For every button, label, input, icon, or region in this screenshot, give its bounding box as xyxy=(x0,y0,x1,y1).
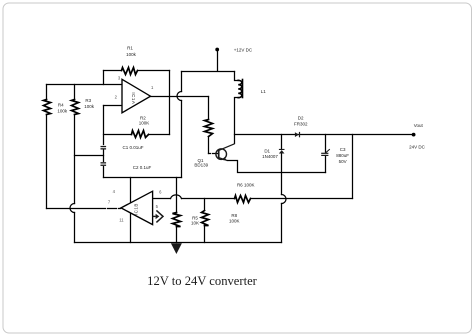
transistor Q1 xyxy=(216,144,235,161)
capacitor C1 xyxy=(101,146,107,150)
svg-text:100K: 100K xyxy=(139,120,150,125)
wire branch R3 to C1-C2 midpoint xyxy=(75,155,104,157)
svg-text:50V: 50V xyxy=(339,159,347,164)
wire Q1 emitter to ground rail xyxy=(228,161,326,173)
capacitor C3 (polarized) xyxy=(321,149,330,156)
resistor R6 xyxy=(235,196,251,203)
svg-text:IC1B: IC1B xyxy=(134,203,139,215)
wire IC1A output xyxy=(151,96,209,98)
resistor R1 xyxy=(104,70,170,72)
wire D1 branch xyxy=(281,135,283,243)
wire hop pin6 wire over R5 line xyxy=(171,195,182,199)
diode D2 xyxy=(295,132,300,137)
svg-text:10K: 10K xyxy=(191,221,199,226)
node Vout terminal dot xyxy=(412,133,416,137)
wire hop +12V line over IC1A output xyxy=(177,92,182,101)
svg-text:100k: 100k xyxy=(84,104,95,109)
svg-text:100k: 100k xyxy=(57,109,68,114)
wire pin2 input xyxy=(104,105,123,107)
capacitor C2 xyxy=(101,162,107,166)
svg-text:11: 11 xyxy=(119,218,124,223)
resistor R5 xyxy=(176,178,178,243)
svg-text:C2 0.1uF: C2 0.1uF xyxy=(133,165,152,170)
resistor R4 xyxy=(46,85,48,209)
wire Vout feedback drop xyxy=(352,135,354,199)
svg-text:C3: C3 xyxy=(340,147,346,152)
svg-text:Vout: Vout xyxy=(414,123,424,128)
svg-text:R3: R3 xyxy=(85,98,91,103)
svg-text:R1: R1 xyxy=(127,46,133,51)
svg-text:BD139: BD139 xyxy=(194,162,208,167)
inductor L1 core bar xyxy=(242,80,244,98)
wire V+ rail above IC1B xyxy=(104,177,182,179)
svg-text:12V to 24V converter: 12V to 24V converter xyxy=(147,274,258,288)
svg-text:R8: R8 xyxy=(231,213,237,218)
wire IC1B pin6 / R6 net xyxy=(153,198,353,200)
svg-text:L1: L1 xyxy=(261,89,267,94)
svg-text:+12V DC: +12V DC xyxy=(234,47,253,52)
inductor L1 xyxy=(235,72,239,144)
wire +12V supply xyxy=(182,50,235,72)
resistor R3 xyxy=(74,85,76,243)
wire output net to Vout xyxy=(235,134,414,136)
wire pin2 node vertical through C1 C2 xyxy=(103,106,105,178)
wire R1 left lead xyxy=(103,71,105,85)
resistor base (unlabeled) xyxy=(208,97,210,154)
ground xyxy=(171,243,182,254)
node +12V terminal dot xyxy=(215,48,219,52)
svg-text:24V DC: 24V DC xyxy=(409,144,426,149)
wire pin3 input net xyxy=(47,84,123,86)
wire IC1B output to R4 (pin7 net) xyxy=(47,208,121,210)
diode D1 xyxy=(279,149,285,154)
svg-text:R6 100K: R6 100K xyxy=(237,182,255,187)
wire IC1B pin11 stub xyxy=(130,213,132,243)
svg-text:FR302: FR302 xyxy=(294,121,308,126)
svg-text:D1: D1 xyxy=(264,149,270,154)
svg-text:100k: 100k xyxy=(126,52,137,57)
wire hop D1 line over R6 wire xyxy=(282,195,287,204)
wire +12V drop to rail xyxy=(181,72,183,178)
wire ground rail (bottom) xyxy=(75,242,282,244)
svg-text:1N4007: 1N4007 xyxy=(262,154,278,159)
wiper arrow at IC1B pin5 xyxy=(153,210,163,222)
wire base lead Q1 xyxy=(209,153,219,155)
wire C3 branch xyxy=(325,135,327,173)
resistor R8 xyxy=(204,199,206,243)
svg-text:IC1A: IC1A xyxy=(131,92,136,104)
op-amp U1 IC1A xyxy=(122,79,151,113)
svg-text:R4: R4 xyxy=(58,103,64,108)
svg-text:880uF: 880uF xyxy=(336,153,349,158)
wire hop R3 line over pin7 wire xyxy=(70,204,75,213)
wire IC1B pin4 stub xyxy=(130,178,132,204)
svg-text:C1 0.01uF: C1 0.01uF xyxy=(122,145,143,150)
svg-text:100K: 100K xyxy=(229,218,240,223)
svg-text:D2: D2 xyxy=(298,115,304,120)
resistor R2 xyxy=(104,134,170,136)
wire R1/R2 right leads to output node xyxy=(169,71,171,135)
op-amp U2 IC1B xyxy=(121,191,153,224)
